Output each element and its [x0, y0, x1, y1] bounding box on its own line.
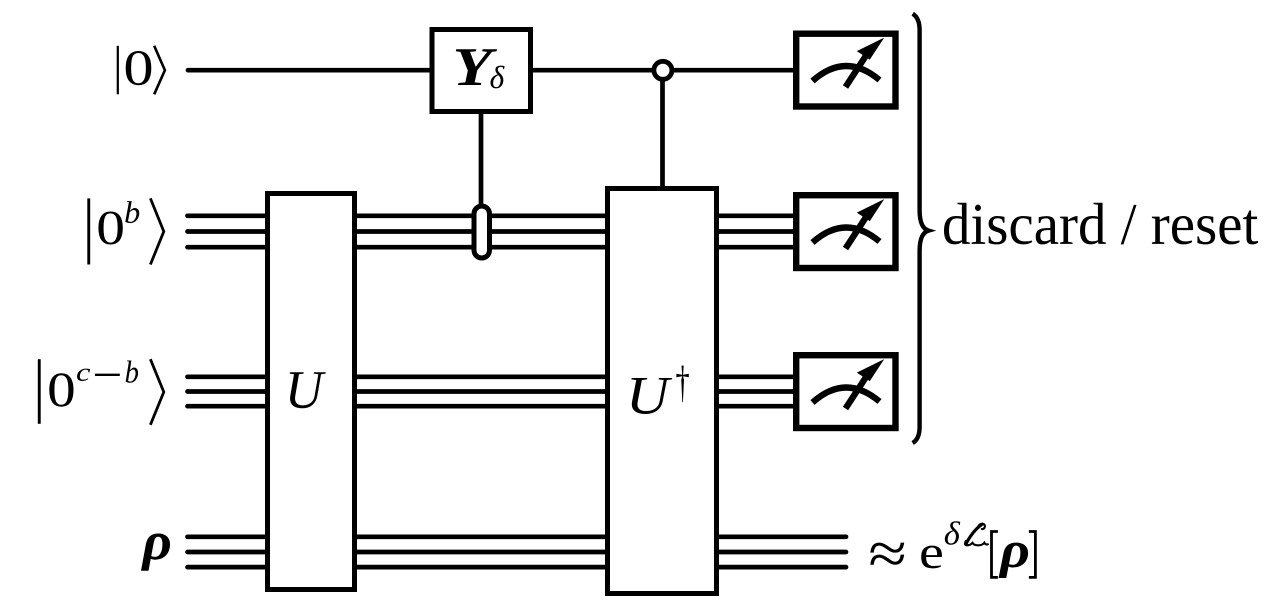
wire control vertical: [660, 70, 665, 188]
symbol approx: [870, 543, 904, 565]
gate label U-dagger U: [631, 378, 672, 414]
node q0 ket angle bracket: [154, 46, 165, 95]
wire q0 right segment: [531, 68, 793, 73]
meter 2 (measurement box): [796, 195, 895, 268]
label |0^b> digit: [98, 212, 122, 245]
symbol bracket [: [992, 532, 998, 578]
node q0 ket bar: [117, 46, 119, 95]
curly brace discard/reset: [913, 14, 929, 443]
symbol script L: [965, 524, 988, 546]
wires (c-b)-register (3 lines): [188, 377, 794, 406]
wires rho-register (3 lines): [188, 537, 847, 567]
gate Y-delta box: [432, 30, 531, 112]
label superscript minus: [95, 374, 120, 376]
gate U box: [268, 194, 355, 590]
symbol delta sup: [945, 521, 961, 545]
label |0> digit: [126, 51, 152, 85]
gate label Y: [456, 49, 497, 85]
node (c-b)-register ket angle bracket: [150, 359, 163, 425]
symbol bracket ]: [1029, 532, 1036, 578]
gate label dagger: [676, 366, 688, 403]
symbol rho output: [999, 543, 1029, 578]
node b-register ket angle bracket: [150, 198, 163, 264]
meter 1 (measurement box): [796, 34, 895, 107]
control open circle: [654, 61, 672, 79]
multi-wire tap oval: [474, 206, 490, 258]
node b-register ket bar: [87, 198, 90, 264]
wires b-register (3 lines): [188, 216, 794, 247]
label superscript b: [126, 361, 138, 383]
gate label U: [290, 372, 326, 408]
label |0^b> superscript b: [125, 201, 139, 223]
label rho input: [141, 534, 170, 571]
label |0^(c-b)> digit: [49, 373, 73, 406]
meter 3 (measurement box): [796, 355, 895, 428]
symbol e: [921, 546, 942, 569]
gate U-dagger box: [608, 189, 717, 594]
gate label delta sub: [491, 66, 505, 89]
node (c-b)-register ket bar: [38, 359, 41, 424]
wire q0 left segment: [188, 68, 431, 73]
wire Y-gate to oval vertical: [479, 112, 484, 208]
label superscript c: [77, 369, 90, 381]
text discard-reset: [944, 203, 1258, 245]
